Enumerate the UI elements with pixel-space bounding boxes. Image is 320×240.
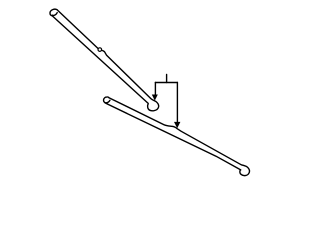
- callout bracket horizontal: [155, 82, 177, 84]
- callout right vertical: [176, 83, 178, 123]
- rod 1 loop detail: [98, 48, 102, 52]
- callout left vertical: [154, 83, 156, 95]
- arrowhead to rod 1: [152, 95, 158, 101]
- rod 1 cap inner arc: [52, 13, 57, 16]
- rod 2 cap inner arc: [105, 100, 110, 103]
- arrowhead to rod 2: [174, 122, 180, 128]
- callout leader tick: [166, 75, 168, 83]
- rod 1 body: [50, 9, 159, 111]
- rod 2 body: [104, 97, 250, 176]
